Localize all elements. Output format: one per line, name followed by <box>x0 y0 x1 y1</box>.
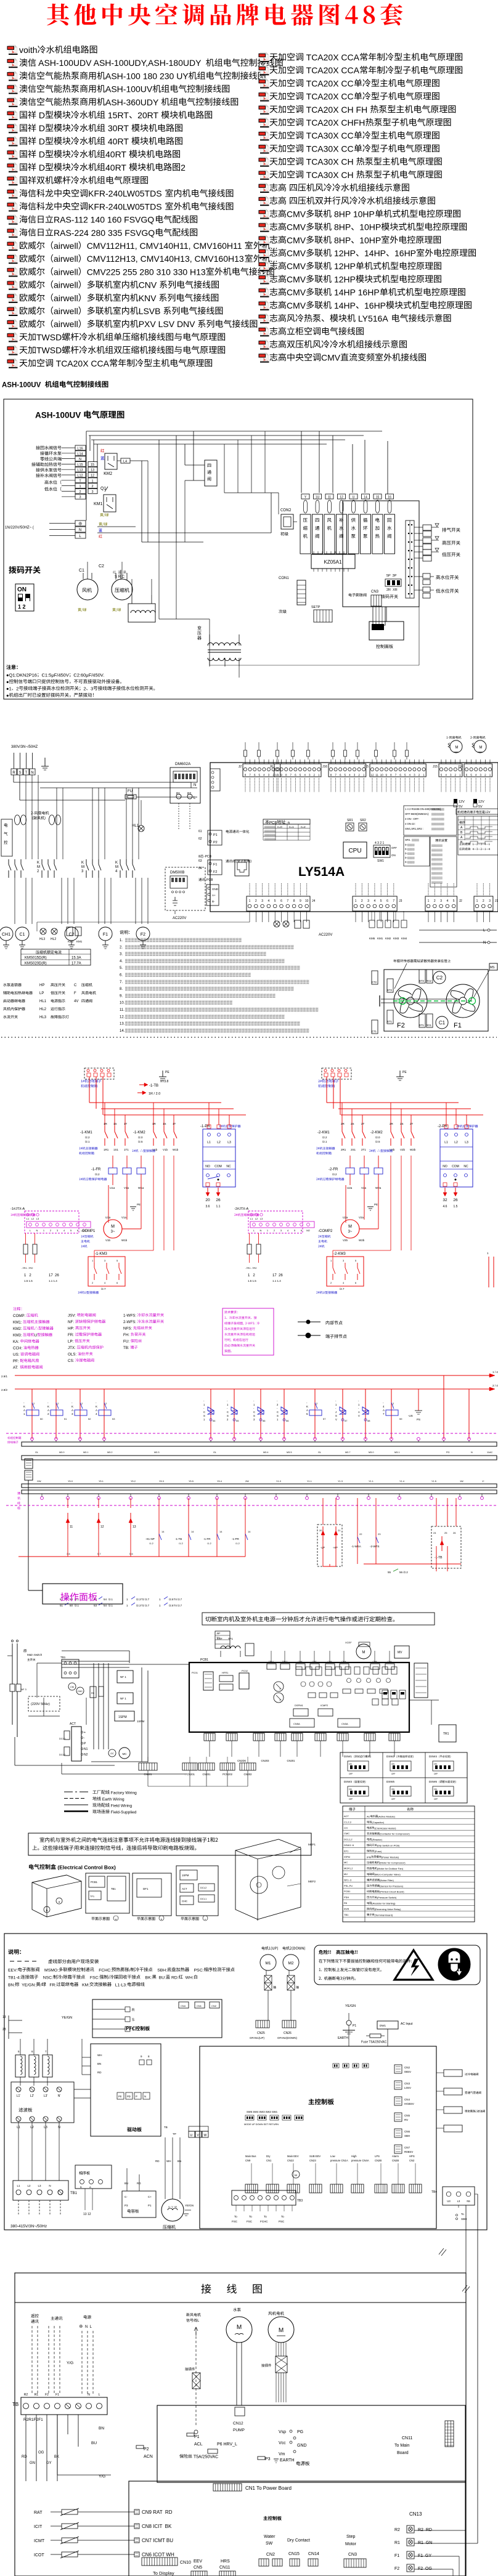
water pump 水泵 M~ <box>233 2308 240 2312</box>
svg-text:TB3: TB3 <box>297 2199 303 2203</box>
contactor -1-KM1 <box>104 1103 105 1126</box>
control panel 控制面板 <box>369 622 404 640</box>
svg-text:7: 7 <box>395 774 397 777</box>
wire red phase bus <box>99 1102 221 1103</box>
svg-text:CH1: CH1 <box>2 933 10 937</box>
svg-text:10: 10 <box>275 774 279 777</box>
svg-text:2: 2 <box>181 163 186 172</box>
svg-text:1*: 1* <box>482 1480 484 1483</box>
svg-text:▒▒▒▒▒▒▒▒▒▒▒▒▒▒▒▒▒▒▒▒▒▒▒▒▒▒▒▒▒▒: ▒▒▒▒▒▒▒▒▒▒▒▒▒▒▒▒▒▒▒▒▒▒▒▒▒▒▒▒▒▒▒▒▒▒▒▒▒▒▒▒… <box>125 1028 309 1033</box>
svg-text:-1-PR: -1-PR <box>232 1537 240 1541</box>
svg-text:1: 1 <box>476 899 478 903</box>
svg-text:V1a: V1a <box>124 1186 129 1189</box>
terminal strip X1 left signal terminals <box>36 446 61 450</box>
svg-text:ET1: ET1 <box>387 1020 392 1023</box>
svg-text:FCHC:: FCHC: <box>94 1969 112 1973</box>
svg-text:4: 4 <box>115 870 118 873</box>
compressor motor -COMP1 <box>104 1220 122 1238</box>
svg-text:BK:: BK: <box>141 1976 152 1980</box>
svg-text:GND: GND <box>297 2444 307 2448</box>
contactor -2-KM2 delta <box>390 1103 391 1126</box>
svg-text:3: 3 <box>104 1259 106 1262</box>
svg-text:2: 2 <box>81 1402 83 1405</box>
svg-text:(Sensor for Pressure): (Sensor for Pressure) <box>380 1884 404 1887</box>
svg-text:TCA20X CCA: TCA20X CCA <box>304 65 360 75</box>
svg-text:Y: Y <box>304 496 307 500</box>
svg-text:1 2: 1 2 <box>18 604 26 610</box>
svg-text:4: 4 <box>268 899 270 903</box>
svg-text:7.: 7. <box>120 981 123 984</box>
svg-text:WH: WH <box>97 2054 102 2057</box>
sensor callout text <box>393 959 451 962</box>
svg-text:5: 5 <box>345 774 346 777</box>
unplug icon <box>438 1948 470 1980</box>
svg-text:TCA30X CC: TCA30X CC <box>304 131 354 140</box>
danger warning box 危险 高压触电 <box>314 1945 480 1985</box>
svg-text:14.: 14. <box>120 1029 125 1033</box>
svg-text:PCB1: PCB1 <box>200 1658 208 1662</box>
svg-text:CN202: CN202 <box>243 1773 252 1776</box>
svg-text:HL2: HL2 <box>39 1008 47 1011</box>
fan shaft <box>381 998 459 1000</box>
svg-text:5: 5 <box>294 1229 296 1232</box>
svg-text:24: 24 <box>433 1531 436 1534</box>
svg-text:MV: MV <box>398 1651 402 1655</box>
title block small <box>215 1631 230 1648</box>
svg-text:TCA20X CC: TCA20X CC <box>304 78 354 88</box>
svg-text:a: a <box>59 1900 60 1903</box>
svg-text:▒▒▒▒▒▒▒: ▒▒▒▒▒▒▒ <box>431 827 444 830</box>
svg-text:C: C <box>277 1411 279 1414</box>
switch connector strip <box>406 520 414 598</box>
svg-text:▒▒▒▒▒▒▒: ▒▒▒▒▒▒▒ <box>431 812 444 816</box>
svg-text:ACT: ACT <box>70 1722 76 1726</box>
svg-text:2: 2 <box>79 490 81 494</box>
svg-text:P: P <box>84 1742 86 1746</box>
main control board 主控制板 <box>200 2046 436 2229</box>
svg-text:C: C <box>203 1411 205 1414</box>
svg-text:▒▒▒▒▒▒▒▒▒▒▒▒▒▒▒▒▒▒▒▒▒▒▒▒▒▒▒▒▒▒: ▒▒▒▒▒▒▒▒▒▒▒▒▒▒▒▒▒▒▒▒▒▒▒▒▒▒▒▒▒▒▒▒▒▒▒▒▒▒▒▒… <box>125 973 251 978</box>
solenoid valves CS1 CS2 <box>210 1389 211 1439</box>
svg-text:8: 8 <box>293 899 295 903</box>
svg-text:-COMP2: -COMP2 <box>318 1229 333 1233</box>
svg-text:1N/220V/50HZ~ (: 1N/220V/50HZ~ ( <box>5 526 34 530</box>
svg-text:1T: 1T <box>124 1122 128 1125</box>
svg-text:-: - <box>277 1407 278 1410</box>
svg-text:4: 4 <box>447 899 449 903</box>
svg-text:2: 2 <box>358 774 360 777</box>
svg-text:W2b: W2b <box>359 1239 365 1242</box>
svg-text:CMV: CMV <box>287 222 306 232</box>
svg-text:12: 12 <box>370 774 374 777</box>
svg-text:LP: LP <box>39 992 44 995</box>
svg-text:6: 6 <box>466 774 468 777</box>
svg-text:F2: F2 <box>394 2567 399 2571</box>
wire red feed arrows -TB <box>139 1084 144 1085</box>
svg-text:3: 3 <box>367 899 369 903</box>
svg-text:16: 16 <box>388 496 391 500</box>
svg-text:ON: ON <box>349 1788 352 1791</box>
svg-text:M2: M2 <box>306 1229 310 1232</box>
svg-text:-: - <box>335 1407 337 1410</box>
svg-text:10: 10 <box>305 899 309 903</box>
svg-text:LPS: LPS <box>375 2155 380 2158</box>
svg-text:9.: 9. <box>120 994 123 998</box>
labels 遥控通讯 主通讯 电源 <box>31 2314 38 2318</box>
main board CN1 connector <box>213 2484 242 2491</box>
svg-text:C: C <box>74 984 77 987</box>
svg-text:KM4: KM4 <box>401 937 407 940</box>
svg-text:MEF1: MEF1 <box>308 1843 316 1846</box>
svg-text:3.: 3. <box>120 953 123 957</box>
svg-text:P0: P0 <box>118 2095 122 2098</box>
svg-text:V2b: V2b <box>343 1239 348 1242</box>
terminal bar TB row 1 <box>22 1442 497 1446</box>
svg-text:Earth Wiring: Earth Wiring <box>101 1797 124 1802</box>
svg-text:ACL: ACL <box>194 2442 203 2447</box>
svg-text:-2-WTS: -2-WTS <box>370 1545 380 1548</box>
svg-text:4: 4 <box>96 1412 97 1416</box>
svg-text:Main EEV: Main EEV <box>287 2155 299 2158</box>
svg-text:6.: 6. <box>120 974 123 978</box>
svg-text:2R1: 2R1 <box>341 1148 346 1151</box>
svg-text:-: - <box>203 1407 205 1410</box>
svg-text:CN2D6: CN2D6 <box>237 1759 246 1762</box>
PCB bottom edge connectors with wires <box>204 1733 215 1741</box>
svg-text:L1: L1 <box>17 2184 20 2187</box>
svg-text:08SV: 08SV <box>404 2070 411 2073</box>
svg-text:D: D <box>36 136 45 146</box>
svg-text:1: 1 <box>428 899 430 903</box>
green speed sensor line <box>393 1000 475 1002</box>
svg-text:V1b: V1b <box>163 1148 168 1151</box>
svg-text:T4 /2.7: T4 /2.7 <box>174 1604 182 1607</box>
svg-text:2.9/2: 2.9/2 <box>1 1388 8 1391</box>
svg-text:1.5: 1.5 <box>454 1205 458 1209</box>
svg-text:1: 1 <box>249 899 251 903</box>
svg-text:(Active Module): (Active Module) <box>378 1815 395 1818</box>
svg-text:1.1: 1.1 <box>216 1205 221 1209</box>
pdf link list left column <box>7 45 17 55</box>
schematic 6 outer frame <box>4 1934 487 2230</box>
DSW DIP switch table <box>340 1752 467 1803</box>
svg-text:M: M <box>81 865 84 869</box>
svg-text:(Reversing Valve Relay): (Reversing Valve Relay) <box>375 1908 401 1911</box>
svg-text:CMV: CMV <box>287 209 306 219</box>
plan view b <box>133 1873 171 1916</box>
svg-text:-1-KM3: -1-KM3 <box>95 1252 107 1256</box>
svg-text:P1: P1 <box>176 792 180 796</box>
svg-text:K: K <box>115 861 118 865</box>
svg-text:N: N <box>79 458 81 461</box>
svg-text:L2: L2 <box>217 1141 221 1144</box>
svg-text:2: 2 <box>91 485 93 488</box>
svg-text:SW5 SW4 SW3 SW2 SW1: SW5 SW4 SW3 SW2 SW1 <box>247 2110 278 2113</box>
svg-text:15RT: 15RT <box>105 110 129 120</box>
svg-text:B-: B- <box>212 900 215 903</box>
svg-text:CN4: CN4 <box>404 2098 410 2101</box>
svg-text:NSC:: NSC: <box>38 1976 53 1980</box>
svg-text:A: A <box>306 1409 308 1412</box>
svg-text:/2.1: /2.1 <box>75 1604 80 1607</box>
svg-text:COM: COM <box>214 1165 222 1169</box>
svg-text:1: 1 <box>203 1418 205 1421</box>
compressor motors C1 C2 fan motors F1 F2 <box>0 927 13 941</box>
svg-text:YE/GN: YE/GN <box>62 2016 72 2020</box>
svg-text:26: 26 <box>453 1531 456 1534</box>
svg-text:N: N <box>260 1229 262 1232</box>
svg-text:PXV LSV DNV: PXV LSV DNV <box>139 319 198 329</box>
wire horizontal mid <box>142 541 203 543</box>
svg-text:C1: C1 <box>79 569 84 573</box>
svg-text:SR1: SR1 <box>347 819 353 822</box>
motor PE ground <box>367 1206 373 1207</box>
svg-text:CN5: CN5 <box>404 2114 410 2117</box>
svg-text:L13: L13 <box>77 469 83 472</box>
svg-text:5: 5 <box>70 1229 72 1232</box>
devices -1-WSA -2-WTS <box>357 1498 358 1564</box>
svg-text:4: 4 <box>304 774 306 777</box>
svg-text:12V: 12V <box>478 800 484 804</box>
vertical wire bundle left-middle <box>93 1663 94 1749</box>
svg-text:DT2: DT2 <box>419 979 425 982</box>
svg-text:NFS:: NFS: <box>123 1327 133 1331</box>
svg-text:R2 RD: R2 RD <box>418 2528 432 2532</box>
svg-text:Low: Low <box>330 2155 336 2158</box>
svg-text:CN23: CN23 <box>309 2159 316 2162</box>
svg-text:M3.4: M3.4 <box>263 1451 268 1454</box>
svg-text:MSMO:: MSMO: <box>40 1969 59 1973</box>
svg-text:a: a <box>115 1918 117 1921</box>
svg-text:-: - <box>358 1407 359 1410</box>
svg-text:LY514A: LY514A <box>298 865 345 879</box>
board address table 本PCB地址 <box>263 819 310 824</box>
svg-text:8HP 10HP: 8HP 10HP <box>332 209 375 219</box>
svg-text:(Motor for Compressor): (Motor for Compressor) <box>380 1861 406 1865</box>
svg-text:13: 13 <box>2 2015 6 2019</box>
svg-text:1.1 1.4: 1.1 1.4 <box>272 1279 281 1282</box>
svg-text:1: 1 <box>358 1403 360 1406</box>
svg-text:10: 10 <box>380 774 384 777</box>
svg-text:R1: R1 <box>35 2393 39 2397</box>
svg-text:2: 2 <box>83 686 86 692</box>
svg-text:3: 3 <box>414 774 415 777</box>
svg-text:5: 5 <box>306 1412 308 1416</box>
svg-text:+: + <box>84 1731 86 1735</box>
fresh air motor signal 新风电机信号线L <box>186 2313 201 2317</box>
svg-text:M: M <box>37 865 40 869</box>
svg-text:airwell: airwell <box>54 254 78 264</box>
svg-text:L2': L2' <box>30 2094 35 2098</box>
svg-text:T2 /2.7: T2 /2.7 <box>141 1598 150 1601</box>
svg-text:Main Switch: Main Switch <box>27 1653 43 1656</box>
svg-text:4V: 4V <box>74 1000 78 1003</box>
svg-text:▒▒▒▒▒▒▒▒▒▒▒▒▒▒▒▒▒▒▒▒▒▒▒▒▒▒▒▒▒▒: ▒▒▒▒▒▒▒▒▒▒▒▒▒▒▒▒▒▒▒▒▒▒▒▒▒▒▒▒▒▒▒▒▒▒▒▒▒▒▒▒… <box>125 986 294 991</box>
compressor motor -COMP2 <box>341 1220 359 1238</box>
svg-text:N2: N2 <box>84 1753 88 1757</box>
svg-text:KMS020D(R): KMS020D(R) <box>25 962 47 966</box>
svg-text:R2: R2 <box>394 2528 400 2532</box>
svg-text:1: 1 <box>126 1598 128 1601</box>
svg-text:P1: P1 <box>148 2204 152 2207</box>
svg-text:(Electrical Control Box): (Electrical Control Box) <box>56 1865 116 1871</box>
svg-text:(Contactor for Compressor): (Contactor for Compressor) <box>380 1833 410 1836</box>
lamp HL1 <box>138 825 144 832</box>
svg-text:(Printed Circuit Board): (Printed Circuit Board) <box>380 1890 404 1894</box>
svg-text:2: 2 <box>92 1281 94 1284</box>
svg-text:V: V <box>358 1414 360 1417</box>
svg-text:ON: ON <box>391 1763 394 1765</box>
svg-text:FR:: FR: <box>68 1333 75 1337</box>
svg-text:TF1: TF1 <box>228 1637 233 1640</box>
svg-text:26: 26 <box>216 1198 221 1202</box>
svg-text:12: 12 <box>100 1525 104 1529</box>
svg-text:PE: PE <box>402 1071 407 1074</box>
svg-text:DSW5: DSW5 <box>386 1780 394 1783</box>
svg-text:(Power Module): (Power Module) <box>382 1855 399 1858</box>
svg-text:N: N <box>79 529 81 532</box>
glossary table <box>343 1806 475 1922</box>
svg-text:PE: PE <box>165 1071 169 1074</box>
water level switch links <box>423 573 430 578</box>
svg-text:L0SV: L0SV <box>404 2086 411 2089</box>
svg-text:1: 1 <box>267 1229 269 1232</box>
switch group box right <box>343 501 419 607</box>
fuses and parts above board <box>244 750 247 756</box>
CN10 display connector <box>142 2558 178 2566</box>
svg-text:(Dip Switch on PCB): (Dip Switch on PCB) <box>377 1844 400 1847</box>
svg-text:TB1-4:: TB1-4: <box>8 1976 21 1980</box>
svg-text:-2#JTX-A: -2#JTX-A <box>234 1207 249 1211</box>
svg-text:CN10: CN10 <box>180 2561 191 2565</box>
svg-text:CNA: CNA <box>341 1661 346 1663</box>
svg-text:1: 1 <box>43 1229 45 1232</box>
svg-text:PC02: PC02 <box>242 1669 248 1672</box>
svg-text:40RT: 40RT <box>105 163 129 172</box>
svg-text:RAS-224 280 335 FSVGQ: RAS-224 280 335 FSVGQ <box>54 228 155 238</box>
svg-text:PCN202: PCN202 <box>222 1773 232 1776</box>
svg-text:(Resistor for Starting): (Resistor for Starting) <box>372 1902 396 1905</box>
svg-text:LP:: LP: <box>68 1340 75 1344</box>
svg-text:CN2: CN2 <box>404 2066 410 2069</box>
svg-text:-1#JTX-A: -1#JTX-A <box>10 1207 25 1211</box>
svg-text:U V W: U V W <box>168 2205 177 2208</box>
svg-text:TCA20X CCA: TCA20X CCA <box>304 52 360 62</box>
svg-text:5: 5 <box>470 774 472 777</box>
svg-text:56 /2.2: 56 /2.2 <box>399 1571 408 1574</box>
PCB interior extra parts <box>345 1667 351 1674</box>
svg-text:J4: J4 <box>312 899 316 903</box>
svg-text:L1-L3:: L1-L3: <box>112 1983 127 1988</box>
terminal strip TB3 <box>232 2190 296 2205</box>
svg-text:13.: 13. <box>120 1023 125 1026</box>
svg-text:SR2: SR2 <box>360 819 366 822</box>
warning box 室内机与室外机 <box>28 1833 311 1855</box>
svg-text:T: T <box>25 771 28 775</box>
svg-text:R: R <box>132 2009 135 2012</box>
svg-text:8HP: 8HP <box>332 222 351 232</box>
svg-text:Vcc: Vcc <box>279 2441 286 2445</box>
svg-text:N: N <box>49 2184 51 2187</box>
fan F1 <box>446 984 480 1018</box>
svg-text:GL: GL <box>318 1451 321 1454</box>
main PCB board outline <box>210 763 498 912</box>
fan F2 <box>394 984 427 1018</box>
svg-text:Y5.0: Y5.0 <box>68 1480 73 1483</box>
svg-text:2.: 2. <box>120 946 123 949</box>
svg-text:OFF: OFF <box>391 846 397 849</box>
svg-text:5: 5 <box>259 774 261 777</box>
svg-text:9: 9 <box>300 899 301 903</box>
svg-text:NF1~3: NF1~3 <box>344 1878 352 1881</box>
svg-text:K: K <box>306 1405 308 1408</box>
svg-text:-: - <box>253 1399 255 1403</box>
svg-text:32: 32 <box>443 1198 447 1202</box>
svg-text:L14: L14 <box>77 452 83 456</box>
driver board 驱动板 <box>91 2044 161 2136</box>
svg-text:HGBSV: HGBSV <box>404 2102 414 2105</box>
svg-text:14: 14 <box>161 1530 165 1533</box>
svg-text:M: M <box>115 865 118 869</box>
svg-text:CN3A: CN3A <box>341 1722 348 1725</box>
main switch 主开关 <box>23 1650 27 1653</box>
svg-text:11AC: 11AC <box>487 1451 492 1454</box>
svg-text:GN: GN <box>30 2461 35 2465</box>
svg-text:-1-KM1: -1-KM1 <box>80 1131 92 1135</box>
svg-text:P2: P2 <box>187 792 191 796</box>
svg-text:J15: J15 <box>364 765 369 769</box>
svg-text:M3.0: M3.0 <box>59 1451 64 1454</box>
PFC board PFC控制板 <box>92 1999 222 2038</box>
svg-text:ON: ON <box>391 854 396 857</box>
svg-text:7: 7 <box>287 899 288 903</box>
svg-text:/2.1: /2.1 <box>85 1140 90 1143</box>
input terminal TB1 <box>62 1659 79 1678</box>
svg-text:8HP: 8HP <box>332 235 351 245</box>
svg-text:KZ05A1: KZ05A1 <box>324 559 342 565</box>
svg-text:P3: P3 <box>265 2457 271 2461</box>
transformer 变压器 <box>197 626 201 630</box>
svg-text:US:: US: <box>13 1353 20 1357</box>
svg-text:14: 14 <box>364 496 367 500</box>
svg-text:SBH:: SBH: <box>153 1969 168 1973</box>
controller CPU KZ05A1 <box>311 554 355 569</box>
svg-text:3: 3 <box>280 1229 282 1232</box>
svg-text:/2.1: /2.1 <box>108 1604 113 1607</box>
svg-text:/2.3: /2.3 <box>136 1604 141 1607</box>
svg-text:F: F <box>74 992 76 995</box>
svg-text:2: 2 <box>57 1402 59 1405</box>
svg-text:KM2:: KM2: <box>13 1327 23 1331</box>
svg-text:3~: 3~ <box>111 1230 115 1234</box>
svg-text:ISPM: ISPM <box>344 1855 350 1858</box>
svg-text:0-▒▒▒▒: 0-▒▒▒▒ <box>405 843 415 846</box>
svg-text:14: 14 <box>191 1530 194 1533</box>
svg-text:Y5.5: Y5.5 <box>189 1480 194 1483</box>
motor PE ground <box>130 1206 136 1207</box>
svg-text:(Crankcase Heater): (Crankcase Heater) <box>375 1826 397 1829</box>
svg-text:N: N <box>31 771 33 775</box>
svg-text:13: 13 <box>133 1525 136 1529</box>
comm cable connector <box>25 1459 33 1468</box>
svg-text:53: 53 <box>112 1417 115 1420</box>
svg-text:6: 6 <box>386 899 388 903</box>
svg-text:COM: COM <box>452 1165 459 1169</box>
svg-text:3: 3 <box>450 774 452 777</box>
svg-text:/1.2: /1.2 <box>149 1542 153 1545</box>
svg-text:(Pressure Switch): (Pressure Switch) <box>377 1896 397 1899</box>
svg-text:DCL1: DCL1 <box>59 1737 66 1740</box>
